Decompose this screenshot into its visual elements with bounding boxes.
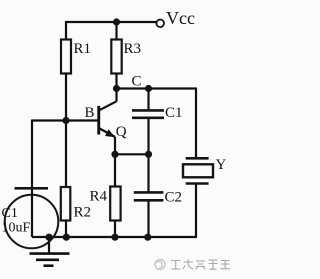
svg-text:R1: R1 xyxy=(74,41,92,57)
svg-text:Vcc: Vcc xyxy=(166,8,195,28)
svg-text:Y: Y xyxy=(216,157,227,173)
svg-text:C: C xyxy=(132,74,142,90)
svg-text:R3: R3 xyxy=(124,41,142,57)
svg-text:10uF: 10uF xyxy=(2,221,31,236)
svg-text:Q: Q xyxy=(116,124,127,140)
svg-text:C2: C2 xyxy=(165,190,183,206)
svg-text:C1: C1 xyxy=(165,105,183,121)
svg-text:R2: R2 xyxy=(74,205,92,221)
svg-text:C1: C1 xyxy=(2,206,18,221)
svg-text:R4: R4 xyxy=(90,189,108,205)
svg-text:B: B xyxy=(85,105,95,121)
